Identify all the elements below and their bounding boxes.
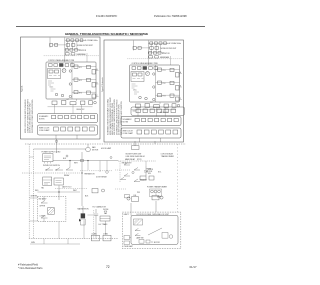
stub wire left a xyxy=(29,156,33,158)
noise filter box xyxy=(132,197,139,202)
svg-text:MAIN RELAY: MAIN RELAY xyxy=(125,158,136,161)
svg-text:INTERLOCK SWITCHES MUST FUNCTI: INTERLOCK SWITCHES MUST FUNCTION xyxy=(121,101,123,135)
svg-text:RELAY: RELAY xyxy=(64,174,70,177)
cavity bottom rect 2 xyxy=(146,240,150,243)
svg-text:* Non-Illustrated Parts: * Non-Illustrated Parts xyxy=(18,267,43,270)
relay cluster switch S14 xyxy=(124,174,130,177)
svg-text:(RY2): (RY2) xyxy=(137,159,142,161)
svg-text:Publication No: 5995612398: Publication No: 5995612398 xyxy=(154,14,187,18)
extra strip pin 2 xyxy=(143,109,147,113)
wire from right block lead xyxy=(134,141,136,146)
transformer T3 secondary xyxy=(154,190,157,193)
door switch S10 xyxy=(46,168,53,171)
svg-text:FGMC3065PF: FGMC3065PF xyxy=(96,14,117,18)
svg-text:SW: SW xyxy=(148,173,151,175)
fuse bubble below left block xyxy=(55,140,57,142)
wire above cavity 2 xyxy=(155,201,157,212)
mid dashed wire extension xyxy=(80,170,112,172)
extra strip pin 6 xyxy=(171,109,175,113)
svg-text:TB1: TB1 xyxy=(41,188,44,190)
svg-text:CONN: CONN xyxy=(91,233,97,235)
transformer T3 frame xyxy=(150,189,162,197)
sensor vertical wire xyxy=(106,161,108,171)
svg-text:HOOD LAMP: HOOD LAMP xyxy=(101,147,112,150)
lead from right block strip xyxy=(154,141,156,144)
aux circle S xyxy=(132,171,134,173)
interlock hatched box xyxy=(134,219,143,225)
terminal block TB2 xyxy=(54,178,63,185)
relay coil K6 xyxy=(149,176,154,180)
svg-text:WHT: WHT xyxy=(74,162,78,164)
svg-text:POWER SUPPLY CORD: POWER SUPPLY CORD xyxy=(42,152,62,154)
svg-text:H.V. CAPACITOR: H.V. CAPACITOR xyxy=(93,205,107,208)
hatch lines xyxy=(48,208,54,215)
right block extra connector strip xyxy=(131,107,185,115)
dashed drop wire xyxy=(119,161,121,183)
cavity turntable motor xyxy=(169,235,173,239)
junction dot n3 xyxy=(59,192,60,193)
junction box JB2 xyxy=(103,235,111,241)
main horizontal wire L1 xyxy=(53,160,118,162)
hood thermostat circle xyxy=(127,197,130,200)
dashed stub y170 xyxy=(115,169,130,171)
oven cavity dashed enclosure xyxy=(122,212,181,249)
transformer T3 core xyxy=(158,190,161,193)
wire to fan motor xyxy=(34,148,86,150)
fan motor FM2 xyxy=(86,147,91,152)
HV diode D2 xyxy=(104,211,107,214)
transformer T3 primary xyxy=(151,190,154,193)
junction dot n2 xyxy=(88,160,89,161)
contact dot 2 xyxy=(55,169,58,172)
vertical wire run 2 xyxy=(81,152,83,206)
aux switch left xyxy=(121,177,127,179)
vertical wire run 1 xyxy=(58,185,60,200)
right schematic block xyxy=(104,40,184,142)
sensor circle xyxy=(106,171,109,174)
contact dot 1 xyxy=(45,169,48,172)
door switch S11 xyxy=(56,168,63,171)
svg-text:SW. ASSY: SW. ASSY xyxy=(39,197,48,200)
HV transformer box xyxy=(100,216,110,221)
svg-text:HEATER: HEATER xyxy=(140,179,147,182)
relay cluster switch S12 xyxy=(124,163,130,166)
small circle mid xyxy=(102,189,105,192)
interlock relay box xyxy=(132,146,140,150)
svg-text:RELAY UNIT: RELAY UNIT xyxy=(122,162,132,165)
branch drop 2 xyxy=(87,161,89,170)
branch drop 3 xyxy=(99,161,101,172)
magnetron wedge xyxy=(79,219,81,222)
HV capacitor C6 xyxy=(94,209,98,219)
small relay box mid xyxy=(92,189,98,193)
junction dot n4 xyxy=(82,173,83,174)
HV wire bottom xyxy=(83,220,85,238)
stub wire left c xyxy=(29,220,37,222)
outside-left box 1 xyxy=(124,236,130,240)
svg-text:GENERAL TROUBLESHOOTING SCHEMA: GENERAL TROUBLESHOOTING SCHEMATIC / MICR… xyxy=(65,32,148,36)
second dashed riser wire xyxy=(33,149,35,239)
svg-text:LINE FUSE 20A FUSE M: LINE FUSE 20A FUSE M xyxy=(126,155,146,158)
vertical drop to ground bus xyxy=(58,222,60,239)
left dashed riser wire xyxy=(28,144,30,239)
svg-text:DIODE: DIODE xyxy=(103,209,109,211)
svg-text:72: 72 xyxy=(106,265,110,269)
stub wire left b xyxy=(29,197,37,199)
svg-text:THERMISTOR: THERMISTOR xyxy=(84,174,95,176)
svg-text:TRANSFORMER: TRANSFORMER xyxy=(161,155,175,158)
wire from left block lead xyxy=(56,139,58,153)
cavity TCO circle xyxy=(160,196,163,199)
switch assembly dashed box xyxy=(37,196,66,221)
svg-text:MOTOR: MOTOR xyxy=(92,149,99,151)
bottom wire drop a xyxy=(43,239,45,244)
svg-text:WHT: WHT xyxy=(73,190,77,192)
fan motor lead xyxy=(87,144,89,147)
TB1 inner line xyxy=(43,179,52,181)
dashed stub y189 xyxy=(115,188,126,190)
svg-text:T.T. MOTOR: T.T. MOTOR xyxy=(151,242,161,244)
capacitor C5 xyxy=(144,166,148,176)
branch drop 1 xyxy=(69,161,71,168)
header rule xyxy=(16,26,205,28)
magnetron lead right xyxy=(87,214,93,216)
svg-text:UPPER: UPPER xyxy=(40,206,46,208)
door switch S12a xyxy=(66,168,73,171)
node circle B xyxy=(110,157,112,159)
right dashed riser wire xyxy=(177,144,179,212)
relay coil K5 xyxy=(140,176,146,180)
power cord box pins xyxy=(45,162,51,164)
svg-text:MAGNETRON: MAGNETRON xyxy=(78,207,90,210)
wire above cavity right xyxy=(155,194,157,196)
bottom wire run xyxy=(30,243,80,245)
power cord box xyxy=(43,154,53,162)
terminal block TB1 xyxy=(43,177,52,185)
svg-text:DOOR SENSE: DOOR SENSE xyxy=(96,176,107,178)
svg-text:POWER TRANSFORMER: POWER TRANSFORMER xyxy=(147,186,168,189)
HV wires xyxy=(96,219,106,238)
extra strip pin 3 xyxy=(150,109,154,113)
door interlock switch S15 xyxy=(41,201,48,204)
cavity switch S20 xyxy=(135,228,140,230)
left schematic block xyxy=(21,37,101,139)
svg-text:GRN/YEL: GRN/YEL xyxy=(31,196,38,198)
wire drop cluster xyxy=(145,161,147,166)
bottom wire drop b xyxy=(67,239,69,244)
outside-left box 2 xyxy=(124,241,130,245)
door interlock switch S16 xyxy=(41,216,48,219)
junction box JB1 xyxy=(91,235,99,241)
cavity switch S21 xyxy=(135,233,140,235)
cavity bottom rect 1 xyxy=(139,240,144,244)
dashed ground wire xyxy=(22,172,80,174)
dashed link wire xyxy=(118,160,156,162)
interlock hatch marks xyxy=(134,220,142,225)
outside-left lead xyxy=(130,237,132,239)
svg-text:01/17: 01/17 xyxy=(190,265,197,269)
svg-text:MOTOR: MOTOR xyxy=(146,171,153,173)
small box above cavity right xyxy=(125,195,130,198)
dashed stub mid low xyxy=(55,188,88,190)
hv dashed riser xyxy=(93,210,95,239)
thermal cutout TCO2 xyxy=(152,196,159,200)
svg-text:LOW VOLTAGE: LOW VOLTAGE xyxy=(161,153,174,156)
inline fuse on main wire xyxy=(81,159,84,161)
svg-text:INTERLOCK SWITCH: INTERLOCK SWITCH xyxy=(43,165,61,167)
tb interior mark xyxy=(44,183,50,185)
junction dot n1 xyxy=(70,160,71,161)
title underline xyxy=(70,35,143,37)
relay cluster switch S17 xyxy=(134,179,140,182)
oven cavity inner wall xyxy=(131,216,178,245)
svg-text:N.O.: N.O. xyxy=(158,172,162,174)
power box interior mark xyxy=(44,156,51,160)
mid horizontal wire xyxy=(37,191,80,193)
tb2 interior mark xyxy=(56,181,62,183)
node circle A xyxy=(66,155,68,157)
svg-text:DOOR IS CLOSED, OVEN WALL OF U: DOOR IS CLOSED, OVEN WALL OF UNIT xyxy=(137,213,169,216)
svg-text:DISCONNECT POWER WHEN SERVICIN: DISCONNECT POWER WHEN SERVICING xyxy=(32,99,34,133)
magnetron filament box xyxy=(81,219,86,225)
hatched connector block xyxy=(48,208,55,215)
bottom dashed ground bus xyxy=(29,238,118,240)
cavity door diagonal xyxy=(148,228,162,235)
relay cluster switch S13 xyxy=(134,168,140,171)
hv trans label line xyxy=(100,218,110,220)
svg-text:Figure B Schematic: Figure B Schematic xyxy=(101,77,104,92)
magnetron antenna wire xyxy=(82,206,84,214)
extra strip pin 5 xyxy=(164,109,168,113)
cavity right rect xyxy=(162,233,168,239)
svg-text:CN-E: CN-E xyxy=(133,111,137,113)
svg-text:LOWER: LOWER xyxy=(40,215,47,217)
magnetron body xyxy=(81,214,85,219)
switch leads xyxy=(43,197,45,223)
wire above cavity box xyxy=(130,203,132,216)
svg-text:Figure A: Figure A xyxy=(21,85,24,92)
extra strip pin 4 xyxy=(157,109,161,113)
extra strip pin 1 xyxy=(136,109,140,113)
wiring diagram top dashed boundary wire xyxy=(25,143,186,145)
